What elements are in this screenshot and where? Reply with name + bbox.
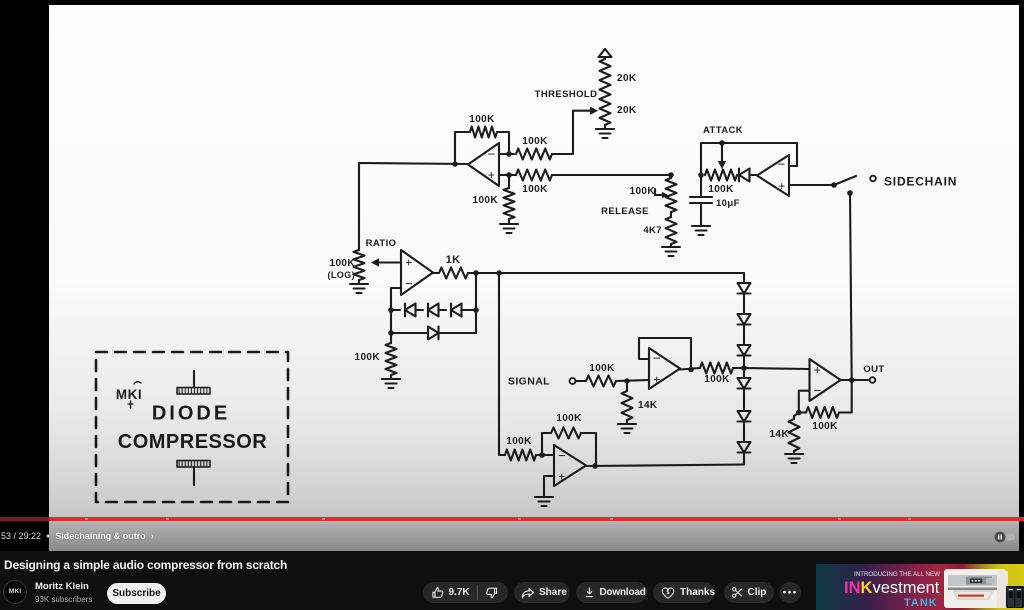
svg-text:100K: 100K [329,258,355,269]
svg-text:RATIO: RATIO [366,238,397,249]
svg-text:+: + [405,256,412,270]
svg-text:100K: 100K [469,114,495,125]
svg-text:ATTACK: ATTACK [703,125,743,136]
svg-text:−: − [488,147,496,162]
svg-text:1K: 1K [446,254,461,266]
svg-text:10μF: 10μF [716,198,740,209]
svg-text:−: − [778,157,786,172]
svg-text:20K: 20K [617,105,637,116]
svg-text:SIDECHAIN: SIDECHAIN [884,175,957,189]
svg-text:THRESHOLD: THRESHOLD [535,89,598,100]
svg-text:$: $ [667,589,670,595]
svg-text:100K: 100K [522,184,548,195]
svg-text:100K: 100K [472,195,498,206]
svg-text:20K: 20K [617,73,637,84]
svg-text:4K7: 4K7 [643,225,662,236]
svg-text:(LOG): (LOG) [328,270,356,280]
svg-text:100K: 100K [629,186,655,197]
svg-text:RELEASE: RELEASE [601,206,649,217]
svg-text:+: + [778,179,785,193]
svg-text:100K: 100K [522,136,548,147]
svg-text:+: + [488,168,495,182]
svg-text:100K: 100K [708,184,734,195]
